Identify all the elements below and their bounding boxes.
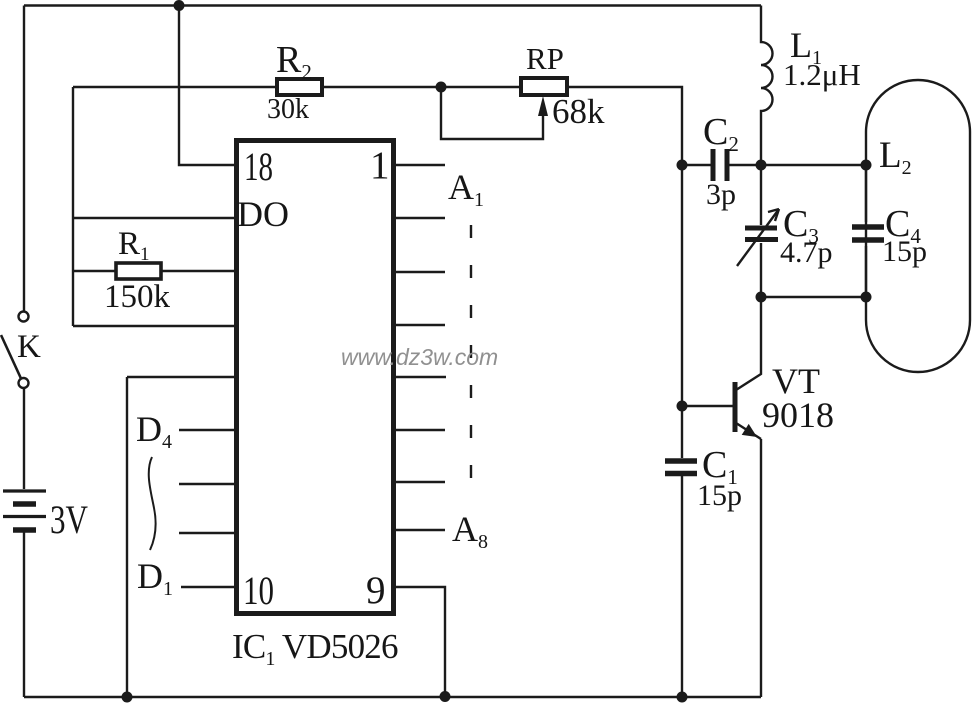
node junction tank bottom left	[756, 292, 767, 303]
svg-text:IC1 VD5026: IC1 VD5026	[232, 627, 398, 670]
label C4	[885, 203, 921, 248]
node junction pin9 ground	[440, 691, 451, 702]
wire D4 pin stub	[179, 429, 234, 431]
resistor R1 150k body	[116, 263, 161, 279]
label C3	[783, 203, 819, 248]
svg-text:R2: R2	[276, 39, 312, 84]
label 15p C4	[882, 235, 927, 268]
svg-text:68k: 68k	[552, 92, 605, 131]
label pin 1	[370, 144, 390, 187]
label DO	[237, 194, 289, 234]
node A1-A8 dashed address line	[470, 225, 472, 495]
node junction on top rail	[174, 0, 185, 11]
wire R1 to IC	[161, 270, 234, 272]
svg-text:www.dz3w.com: www.dz3w.com	[341, 344, 498, 370]
wire y87 bus from left bus to R2	[73, 86, 277, 88]
wire from top rail down to IC pin 18	[179, 6, 234, 166]
wire collector lead down from tank	[736, 297, 761, 390]
label 15p C1	[697, 479, 742, 512]
svg-text:15p: 15p	[697, 479, 742, 512]
wire left vertical bus x73	[72, 87, 74, 326]
node junction tank bottom right	[861, 292, 872, 303]
svg-text:10: 10	[243, 568, 274, 613]
wire tank top to L2	[761, 164, 866, 166]
label 30k	[267, 94, 309, 125]
capacitor C4 15p	[852, 165, 884, 297]
wire vertical x682 lower	[681, 476, 683, 697]
label C1	[702, 444, 738, 489]
wire tank bottom link	[761, 296, 866, 298]
wire pin4 stub right	[396, 324, 445, 326]
node junction L2 top	[861, 160, 872, 171]
label R2	[276, 39, 312, 84]
label C2	[703, 111, 739, 156]
label 1.2uH	[783, 57, 861, 92]
label A1	[448, 167, 484, 211]
wire D1 pin to pin 10	[181, 586, 234, 588]
svg-text:9018: 9018	[762, 395, 834, 435]
label 68k	[552, 92, 605, 131]
svg-text:R1: R1	[118, 226, 150, 265]
wire pin3 stub	[396, 271, 445, 273]
wire left bus to R1	[73, 270, 116, 272]
node junction C2-left on x682	[677, 160, 688, 171]
svg-text:D4: D4	[136, 409, 172, 453]
wire top supply rail	[24, 4, 761, 6]
svg-text:9: 9	[366, 569, 386, 612]
wire pin2 stub	[396, 217, 445, 219]
switch K	[1, 312, 29, 389]
label 3V	[50, 497, 88, 542]
label A8	[452, 509, 488, 553]
node junction emitter ground	[677, 692, 688, 703]
label D4	[136, 409, 172, 453]
svg-text:C2: C2	[703, 111, 739, 156]
label pin 9	[366, 569, 386, 612]
label 3p	[706, 178, 736, 211]
capacitor C3 4.7p variable	[737, 165, 779, 297]
wire pin4 to left bus	[73, 325, 234, 327]
wire RP to right vertical	[567, 87, 682, 165]
label R1	[118, 226, 150, 265]
capacitor C1 15p plates	[665, 461, 697, 474]
svg-text:D1: D1	[137, 556, 173, 600]
label 150k	[104, 279, 171, 315]
svg-text:A1: A1	[448, 167, 484, 211]
label D1	[137, 556, 173, 600]
label IC1 VD5026	[232, 627, 398, 670]
wire battery to bottom rail	[23, 532, 25, 697]
svg-text:4.7p: 4.7p	[780, 236, 833, 269]
svg-text:18: 18	[244, 144, 273, 189]
capacitor C2 3p plates	[713, 149, 727, 181]
svg-text:1.2μH: 1.2μH	[783, 57, 861, 92]
transistor Q1 VT 9018 body with emitter arrow	[735, 382, 761, 697]
wire bottom ground rail	[24, 696, 761, 698]
label pin 18	[244, 144, 273, 189]
resistor R2 30k body	[277, 79, 322, 95]
wire R2 to RP	[322, 86, 521, 88]
wire pin5 stub right	[396, 376, 446, 378]
svg-text:A8: A8	[452, 509, 488, 553]
wire DO pin to left bus	[73, 217, 234, 219]
svg-text:K: K	[17, 329, 41, 365]
wire base lead	[682, 405, 733, 407]
svg-text:L2: L2	[879, 135, 912, 179]
svg-text:RP: RP	[526, 41, 564, 76]
svg-text:3V: 3V	[50, 497, 88, 542]
svg-text:1: 1	[370, 144, 390, 187]
wire ground bus x127 down to bottom rail	[126, 377, 128, 697]
inductor L1 1.2uH	[761, 6, 773, 166]
watermark www.dz3w.com	[341, 344, 498, 370]
label K	[17, 329, 41, 365]
wire pin6 stub right	[396, 429, 445, 431]
wire data pin stub	[179, 483, 234, 485]
antenna loop L2	[866, 80, 970, 372]
wire C2 right to L1 bottom	[729, 164, 761, 166]
wire pin7 stub right	[396, 481, 445, 483]
IC U1 IC1 VD5026 body	[237, 141, 394, 614]
node junction between R2 and RP	[436, 82, 447, 93]
potentiometer RP 68k body	[521, 78, 567, 95]
svg-text:150k: 150k	[104, 279, 171, 315]
wire pin 9 to bottom rail	[396, 587, 445, 697]
wire left rail from top corner down to switch	[23, 6, 25, 312]
label 4.7p	[780, 236, 833, 269]
battery B1 3V	[3, 491, 46, 530]
squiggle between D4 and D1	[149, 457, 156, 550]
label 9018	[762, 395, 834, 435]
node junction base	[677, 401, 688, 412]
svg-text:3p: 3p	[706, 178, 736, 211]
wire pin8 stub right	[396, 529, 445, 531]
label pin 10	[243, 568, 274, 613]
node junction L1 bottom	[756, 160, 767, 171]
wire switch to battery	[23, 388, 25, 489]
label L1	[790, 25, 822, 69]
wire into C2 left	[682, 164, 711, 166]
label VT	[772, 361, 820, 401]
node junction ground bus	[122, 692, 133, 703]
wire pin1 stub	[396, 164, 445, 166]
wire vertical x682 upper	[681, 165, 683, 458]
wire data pin stub	[179, 532, 234, 534]
svg-text:30k: 30k	[267, 94, 309, 125]
label L2	[879, 135, 912, 179]
wire pin5 to ground bus	[127, 376, 234, 378]
svg-text:15p: 15p	[882, 235, 927, 268]
svg-text:DO: DO	[237, 194, 289, 234]
label RP	[526, 41, 564, 76]
wire RP wiper loop to junction	[441, 92, 548, 139]
